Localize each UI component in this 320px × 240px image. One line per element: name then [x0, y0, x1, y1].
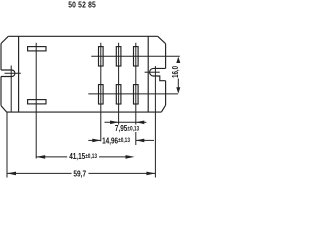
body outline top-left chamfer	[1, 36, 8, 43]
top pin row centerline / 16,0 top extension	[91, 55, 180, 57]
pin bottom row col1	[99, 85, 104, 104]
svg-text:59,7: 59,7	[73, 169, 86, 179]
pin top row col1	[99, 47, 104, 66]
cover slot centerline / 41,15 left extension	[35, 43, 37, 159]
svg-text:16,0: 16,0	[170, 66, 180, 78]
case left wall	[18, 36, 20, 112]
left slot centerline	[5, 72, 21, 74]
cover slot top rect	[28, 47, 46, 51]
pin top row col2	[116, 47, 121, 66]
left flange open slot	[1, 70, 15, 77]
label 50 52 85	[68, 0, 96, 10]
dim 14,96 right arrow line	[136, 139, 154, 141]
right flange open slot with step	[150, 68, 166, 80]
bottom pin row centerline / 16,0 bottom extension	[88, 93, 178, 95]
body outline top edge	[8, 35, 157, 37]
body outline right edge lower	[165, 81, 167, 106]
body outline right edge upper	[165, 44, 167, 69]
dim 14,96 left arrow line	[88, 139, 101, 141]
dim text 14,96 ±0,13	[102, 136, 130, 146]
59,7 left extension	[6, 112, 8, 177]
dim 16,0 bottom arrow	[176, 87, 180, 93]
dim text 59,7	[73, 169, 86, 179]
svg-text:7,95±0,13: 7,95±0,13	[115, 123, 139, 133]
dim 41,15 left arrow	[36, 155, 45, 159]
pin col3 right extension lower	[135, 132, 137, 145]
dim text 7,95 ±0,13	[115, 123, 139, 133]
dim 14,96 left arrow	[92, 139, 101, 143]
case right wall	[147, 36, 149, 112]
dim 7,95 line	[105, 121, 136, 123]
dim 59,7 right arrow	[146, 172, 155, 176]
body outline top-right chamfer	[158, 36, 166, 43]
dim 41,15 line right	[99, 156, 127, 158]
pin bottom row col2	[116, 85, 121, 104]
pin col3 centerline / right extension upper	[135, 43, 137, 125]
body outline left edge upper	[0, 44, 2, 71]
dim 7,95 right arrow	[136, 121, 145, 125]
dim 14,96 right arrow	[136, 139, 145, 143]
right slot centerline	[145, 71, 160, 73]
svg-text:50 52 85: 50 52 85	[68, 0, 96, 10]
svg-text:41,15±0,13: 41,15±0,13	[69, 151, 97, 161]
pin col1 centerline / 14,96 left extension	[100, 43, 102, 142]
dim text 41,15 ±0,13	[69, 151, 97, 161]
dim 59,7 line right	[89, 172, 156, 174]
dim text 16,0 vertical	[170, 66, 180, 78]
dim 41,15 line left	[36, 156, 67, 158]
cover slot bottom rect	[28, 100, 46, 104]
pin bottom row col3	[134, 85, 139, 104]
dim 59,7 line left	[7, 172, 72, 174]
dim 7,95 left arrow	[110, 121, 119, 125]
body outline bottom-right chamfer	[161, 105, 165, 112]
body outline left edge lower	[0, 77, 2, 106]
pin col2 centerline / 7,95 left extension	[118, 43, 120, 125]
dim 16,0 top arrow	[176, 57, 180, 63]
svg-text:14,96±0,13: 14,96±0,13	[102, 136, 130, 146]
right slot crosshair vertical merged with 59,7 right extension	[154, 66, 156, 178]
body outline bottom-left chamfer	[1, 106, 7, 113]
left slot crosshair vertical	[10, 66, 12, 113]
body outline bottom edge	[7, 111, 162, 113]
dim 41,15 right arrow	[126, 155, 135, 159]
dim 59,7 left arrow	[7, 172, 16, 176]
dim 16,0 connector	[177, 79, 179, 88]
pin top row col3	[134, 47, 139, 66]
